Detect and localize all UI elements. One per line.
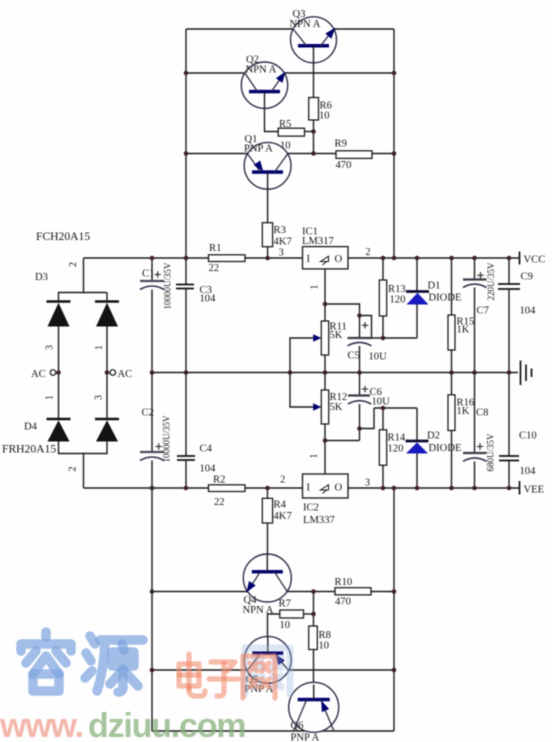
wire Q5 row y=670 — [152, 669, 394, 671]
svg-text:104: 104 — [200, 294, 217, 305]
wire VEE rail y=488 — [348, 487, 520, 489]
svg-text:4K7: 4K7 — [274, 511, 292, 522]
junction dot R7 R8 node — [311, 612, 316, 617]
wire R11 bottom lead — [324, 355, 326, 373]
svg-text:2: 2 — [68, 467, 79, 472]
diode D4 left (bridge) — [47, 419, 71, 442]
svg-text:10: 10 — [319, 111, 330, 122]
svg-text:FRH20A15: FRH20A15 — [2, 443, 56, 456]
resistor R2 — [209, 475, 246, 509]
wire left vertical x=186 (mid portion between C3 and C4) — [185, 289, 187, 457]
svg-text:1K: 1K — [457, 406, 470, 417]
node AC right terminal — [110, 369, 132, 380]
wire C9 top lead — [508, 258, 510, 284]
svg-text:3: 3 — [365, 478, 370, 489]
svg-text:VEE: VEE — [524, 485, 545, 496]
wire R1 row y=258 — [84, 257, 303, 259]
wire R12 top lead — [324, 373, 326, 391]
wire R4 bottom to Q4 base — [267, 523, 269, 556]
svg-text:R1: R1 — [209, 243, 221, 254]
svg-text:R4: R4 — [274, 500, 287, 511]
svg-text:C8: C8 — [476, 408, 488, 419]
junction dots row 670 — [150, 668, 397, 673]
wire R15 top lead — [451, 258, 453, 315]
wire left vertical x=186 (bottom portion) — [185, 460, 187, 488]
wire R13 top lead — [382, 258, 384, 280]
wire bridge top right lead — [106, 293, 108, 302]
resistor R3 — [262, 223, 291, 248]
svg-text:R14: R14 — [388, 433, 406, 444]
junction dots row 258 — [150, 256, 512, 261]
wire Q2 row y=73 — [186, 72, 394, 74]
junction dots ground rail — [150, 370, 512, 375]
resistor R9 — [335, 139, 373, 172]
svg-text:NPN A: NPN A — [243, 605, 274, 616]
wire D3 left anode to D4 left cathode through AC — [58, 327, 60, 420]
op-amp regulator IC1 LM317 — [302, 227, 348, 269]
svg-text:R13: R13 — [388, 284, 406, 295]
capacitor C8 — [463, 408, 496, 472]
svg-text:1: 1 — [94, 345, 105, 350]
wire R16 top lead — [451, 373, 453, 395]
wire IC1 pin1 down — [324, 269, 326, 321]
wire adj node to C5 — [325, 304, 360, 338]
junction dots IC1 adj node — [323, 302, 386, 341]
svg-text:10U: 10U — [369, 352, 388, 363]
wire R3 bottom to R1 row — [267, 247, 269, 258]
wire R13 bottom lead — [382, 316, 384, 338]
wire C1 top lead x=152 — [151, 258, 153, 281]
svg-text:10: 10 — [280, 620, 291, 631]
diode D3 right (bridge) — [95, 302, 119, 327]
node VCC — [520, 252, 546, 266]
svg-text:R3: R3 — [274, 225, 286, 236]
wire bridge bottom right lead — [84, 442, 108, 454]
transistor Q4 — [243, 554, 292, 616]
wire left vertical x=186 (top portion) — [185, 29, 187, 285]
svg-text:D1: D1 — [428, 281, 441, 292]
wire C5 plate to D1 anode y=338 — [372, 337, 418, 339]
diode D3 left (bridge) — [47, 302, 71, 327]
transistor Q1 — [244, 134, 291, 189]
capacitor C9 — [498, 272, 536, 317]
svg-text:R9: R9 — [335, 139, 347, 150]
diode D1 — [406, 281, 461, 305]
svg-text:C10: C10 — [519, 431, 537, 442]
diode D2 — [406, 431, 462, 455]
node VEE — [520, 481, 545, 496]
svg-text:1K: 1K — [457, 325, 470, 336]
svg-text:220U/35V: 220U/35V — [486, 262, 496, 301]
capacitor C2 — [140, 408, 172, 463]
resistor R4 — [262, 498, 291, 523]
wire bridge top stem — [59, 258, 84, 302]
node AC left terminal — [31, 369, 56, 380]
svg-text:R5: R5 — [279, 119, 291, 130]
wire D2 cathode lead — [416, 408, 418, 441]
wire bridge bottom stem — [59, 442, 84, 489]
wire R14 top lead — [382, 408, 384, 430]
wire C8 top lead — [474, 373, 476, 454]
svg-text:IC2: IC2 — [303, 503, 319, 514]
svg-text:C5: C5 — [348, 351, 360, 362]
wire R2 row y=488 — [84, 487, 303, 489]
junction dots row 153.5 — [184, 151, 397, 156]
resistor R5 — [278, 119, 304, 152]
wire top rail y=29 — [186, 28, 394, 30]
svg-text:Q6: Q6 — [291, 721, 304, 732]
svg-text:LM337: LM337 — [303, 515, 335, 526]
svg-text:AC: AC — [118, 369, 133, 380]
potentiometer R12 — [313, 390, 347, 424]
capacitor C3 — [176, 285, 216, 305]
wire D2 anode lead — [416, 454, 418, 489]
wire C2 bottom down left rail x=152 — [151, 461, 153, 732]
wire R5 to R6 node — [305, 131, 314, 133]
wire Q5 base to R7 — [268, 614, 280, 638]
junction dots IC2 adj node — [323, 406, 386, 443]
svg-text:C1: C1 — [142, 269, 154, 280]
svg-text:22: 22 — [209, 263, 220, 274]
svg-text:www.: www. — [0, 707, 83, 742]
wire D1 anode lead — [416, 305, 418, 339]
svg-text:D3: D3 — [35, 272, 48, 283]
wire C7 bottom lead — [474, 288, 476, 373]
wire C8 bottom lead — [474, 462, 476, 489]
svg-text:C2: C2 — [142, 408, 154, 419]
capacitor C4 — [177, 444, 216, 475]
svg-text:1: 1 — [45, 395, 56, 400]
wire IC2 adj node — [325, 440, 360, 442]
svg-text:3: 3 — [45, 345, 56, 350]
svg-text:C4: C4 — [200, 444, 213, 455]
wire adj stub to C5 plate end — [360, 316, 372, 339]
wire C7 top lead — [474, 258, 476, 280]
transistor Q3 — [290, 9, 339, 63]
wire D1 cathode lead — [416, 258, 418, 292]
svg-text:DIODE: DIODE — [429, 443, 462, 454]
wire C6 to D2 y=408 — [374, 407, 417, 409]
junction dots row 73 — [184, 71, 397, 76]
svg-text:10U: 10U — [372, 397, 391, 408]
svg-text:D2: D2 — [427, 431, 440, 442]
svg-text:470: 470 — [335, 597, 351, 608]
diode D4 right (bridge) — [95, 419, 119, 442]
resistor R15 — [448, 315, 474, 350]
svg-text:I: I — [307, 254, 311, 265]
wire C5 bottom to ground rail — [359, 346, 361, 373]
junction dots row 488 — [150, 486, 512, 491]
svg-text:O: O — [335, 254, 343, 265]
svg-text:NPN A: NPN A — [290, 19, 321, 30]
wire right vertical bottom section x=394 — [393, 488, 395, 731]
wire C10 bottom lead — [508, 461, 510, 489]
wire bottom row y=731 — [152, 730, 394, 732]
svg-text:R7: R7 — [279, 599, 291, 610]
capacitor C6 — [348, 386, 390, 408]
resistor R8 — [309, 626, 331, 652]
wire VCC rail y=258 — [348, 257, 520, 259]
svg-text:R2: R2 — [213, 475, 225, 486]
wire C1 bottom to C2 top x=152 — [151, 290, 153, 453]
svg-text:5K: 5K — [330, 330, 343, 341]
ground — [521, 361, 532, 386]
wire R7 to R8 node — [304, 613, 314, 615]
svg-text:dziuu.com: dziuu.com — [88, 707, 245, 742]
wire C6 stub — [360, 408, 375, 429]
svg-text:FCH20A15: FCH20A15 — [36, 230, 90, 243]
resistor R1 — [209, 243, 246, 274]
svg-text:120: 120 — [388, 444, 404, 455]
capacitor C1 — [140, 262, 173, 310]
svg-text:NPN A: NPN A — [246, 65, 277, 76]
wire R6 bottom to Q1 row — [313, 120, 315, 154]
svg-text:2: 2 — [68, 262, 79, 267]
svg-text:2: 2 — [366, 247, 371, 258]
svg-text:22: 22 — [214, 497, 225, 508]
svg-text:10000U/35V: 10000U/35V — [162, 415, 172, 463]
svg-text:104: 104 — [520, 466, 537, 477]
watermark — [0, 632, 290, 742]
svg-text:C9: C9 — [521, 272, 533, 283]
wire Q2 base to R5 — [265, 93, 279, 132]
svg-text:R10: R10 — [335, 577, 353, 588]
svg-text:10: 10 — [319, 641, 330, 652]
svg-text:AC: AC — [31, 369, 46, 380]
wire Q4 row to R8 top — [313, 592, 315, 627]
svg-text:3: 3 — [94, 395, 105, 400]
wire C6 top lead — [359, 373, 361, 396]
junction dot R5 R6 node — [311, 129, 316, 134]
svg-text:5K: 5K — [330, 402, 343, 413]
capacitor C7 — [463, 262, 496, 317]
junction dots AC terminals — [56, 370, 109, 375]
wire right vertical top section x=394 — [393, 29, 395, 258]
svg-text:VCC: VCC — [524, 255, 546, 266]
svg-text:PNP A: PNP A — [244, 144, 273, 155]
wire R12 bottom to IC2 pin1 — [324, 424, 326, 474]
svg-text:C7: C7 — [477, 306, 489, 317]
resistor R7 — [279, 599, 304, 632]
svg-text:470: 470 — [336, 160, 352, 171]
svg-text:R8: R8 — [319, 630, 331, 641]
svg-text:O: O — [335, 483, 343, 494]
svg-text:1: 1 — [310, 285, 321, 290]
resistor R14 — [379, 430, 406, 465]
wire C10 top lead — [508, 373, 510, 457]
svg-text:104: 104 — [520, 306, 537, 317]
wire Q1 row y=153.5 — [186, 153, 394, 155]
op-amp regulator IC2 LM337 — [303, 474, 349, 526]
svg-text:2: 2 — [280, 475, 285, 486]
wire R4 top lead — [267, 488, 269, 498]
wire R15 bottom lead — [451, 350, 453, 373]
potentiometer R11 — [313, 321, 347, 355]
capacitor C10 — [499, 431, 537, 478]
svg-text:D4: D4 — [24, 422, 38, 433]
capacitor C5 — [348, 322, 388, 362]
resistor R16 — [448, 395, 474, 431]
resistor R13 — [379, 280, 405, 316]
svg-text:680U/35V: 680U/35V — [486, 433, 496, 472]
wire D3 right anode to D4 right cathode through AC — [106, 327, 108, 420]
wire Q1 base to R3 top — [267, 187, 269, 223]
wire R8 bottom to Q6 base — [313, 650, 315, 686]
resistor R10 — [335, 577, 372, 608]
svg-text:LM317: LM317 — [302, 236, 334, 247]
svg-text:4K7: 4K7 — [274, 237, 292, 248]
svg-text:120: 120 — [390, 295, 406, 306]
transistor Q2 — [241, 55, 288, 109]
svg-text:1: 1 — [309, 454, 320, 459]
wire C6 bottom lead — [359, 404, 361, 441]
transistor Q5 — [244, 636, 291, 695]
svg-text:PNP A: PNP A — [291, 733, 320, 742]
resistor R6 — [309, 98, 332, 122]
wire Q4 row y=591.5 — [152, 591, 394, 593]
svg-text:104: 104 — [200, 464, 217, 475]
wire ground mid rail y=372.5 — [152, 372, 518, 374]
wire R14 bottom lead — [382, 465, 384, 488]
wire C9 bottom lead — [508, 289, 510, 373]
svg-text:3: 3 — [279, 248, 284, 259]
wire Q3 base to R6 top — [313, 60, 315, 98]
svg-text:DIODE: DIODE — [429, 293, 462, 304]
junction dots row 591.5 — [150, 589, 397, 594]
svg-text:10000U/35V: 10000U/35V — [163, 262, 173, 310]
wire R16 bottom lead — [451, 431, 453, 489]
wire wiper bracket — [290, 338, 315, 407]
transistor Q6 — [289, 682, 339, 742]
svg-text:I: I — [307, 483, 311, 494]
